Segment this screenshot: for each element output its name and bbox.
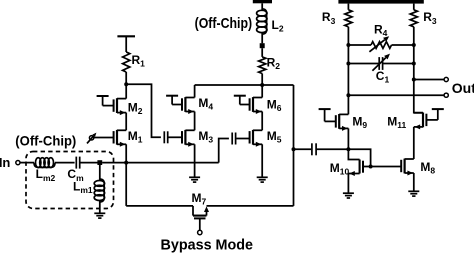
svg-text:R1: R1 xyxy=(132,53,146,69)
junction C1 left xyxy=(346,62,350,66)
bias tee M11 gate xyxy=(432,108,444,110)
capacitor coupling to M5 gate xyxy=(231,133,233,145)
bias tee M2 gate xyxy=(97,95,109,97)
node bond pad L2/R2 xyxy=(260,43,265,48)
variable capacitor C1 row xyxy=(348,63,378,65)
wire right branch xyxy=(414,27,423,113)
svg-text:M10: M10 xyxy=(330,161,350,177)
input terminal xyxy=(16,161,20,165)
wire cap to M5 gate xyxy=(236,138,249,140)
junction C1 right xyxy=(412,62,416,66)
junction Out top / right branch xyxy=(412,78,416,82)
wire C12 to M3 gate xyxy=(169,136,183,138)
wire to C23 xyxy=(294,148,312,150)
svg-text:R2: R2 xyxy=(267,55,281,71)
wire M8 source to ground xyxy=(413,173,415,191)
svg-text:M3: M3 xyxy=(198,129,213,145)
stage-2 drain line xyxy=(195,84,294,86)
bypass wire M7 to node xyxy=(207,205,294,207)
ground (below Lm1) xyxy=(94,212,105,214)
bypass wire from input junction down xyxy=(125,163,127,206)
wire M11 source to M8 drain xyxy=(413,127,415,159)
transistor M7 (bypass switch) xyxy=(192,206,194,216)
ground (M5) xyxy=(257,176,268,178)
svg-text:M6: M6 xyxy=(267,97,282,113)
wire M9 source to node N3 xyxy=(347,128,349,149)
svg-text:R3: R3 xyxy=(423,10,437,26)
junction R2/drain line xyxy=(260,83,264,87)
capacitor interstage coupling C12 xyxy=(163,131,165,143)
wire input line riser to C-M5 xyxy=(219,139,229,163)
junction R4 right xyxy=(412,43,416,47)
junction Out bottom / left branch / M9 drain xyxy=(346,93,350,97)
node input bond pad xyxy=(97,160,102,165)
wire M6 drain xyxy=(261,85,263,98)
bypass wire to M7 xyxy=(126,205,193,207)
junction bypass/stage-2 output/C23 xyxy=(292,147,296,151)
junction input/M1 source/bypass xyxy=(124,161,128,165)
transistor M6 xyxy=(252,97,254,112)
capacitor coupling C23 xyxy=(311,143,313,155)
M10 gate connection to N3 xyxy=(348,149,370,166)
gate bias arrow terminal (M1) xyxy=(89,136,93,140)
wire M1 gate xyxy=(94,137,114,139)
svg-text:R3: R3 xyxy=(322,10,336,26)
wire Cm to input node xyxy=(80,162,98,164)
resistor R3 (right) xyxy=(413,4,415,10)
resistor R1 xyxy=(123,52,130,72)
transistor M11 (mirrored) xyxy=(422,113,424,128)
wire M3 source to ground (crosses input line) xyxy=(194,144,196,177)
junction M10/M8 gate line xyxy=(369,165,373,169)
(Off-Chip) matching network dashed box xyxy=(26,152,114,209)
inductor Lm1 (shunt) xyxy=(99,165,101,181)
wire interstage stage1 output xyxy=(126,84,161,137)
transistor M4 xyxy=(184,97,186,112)
wire M1 source to input line xyxy=(125,144,127,162)
inductor Lm2 xyxy=(34,163,55,168)
node R1/M2 drain junction xyxy=(124,82,128,86)
svg-text:(Off-Chip): (Off-Chip) xyxy=(195,15,253,32)
transistor M1 xyxy=(116,130,118,145)
transistor M5 xyxy=(252,130,254,145)
wire M2 source to M1 drain xyxy=(125,113,127,131)
Out bottom terminal xyxy=(444,93,448,97)
svg-text:Out: Out xyxy=(452,80,474,96)
transistor M3 xyxy=(184,130,186,145)
wire M8 gate to mirror node xyxy=(371,166,402,168)
VDD supply bar (stage 2) xyxy=(253,0,272,3)
wire R2 to drain line xyxy=(261,74,263,86)
svg-text:L2: L2 xyxy=(272,18,284,34)
svg-text:M9: M9 xyxy=(352,115,367,131)
svg-text:C1: C1 xyxy=(376,69,390,85)
transistor M8 xyxy=(404,159,406,174)
variable resistor R4 row xyxy=(348,44,371,46)
svg-text:M8: M8 xyxy=(420,160,435,176)
ground (M3) xyxy=(189,176,200,178)
VDD supply bar (stage 3) xyxy=(338,0,423,4)
wire Out top xyxy=(414,79,444,81)
transistor M2 xyxy=(116,98,118,113)
wire left branch xyxy=(347,27,349,115)
wire M10 source to ground xyxy=(347,174,349,194)
bias tee M9 gate xyxy=(319,108,331,110)
wire Out bottom (crosses right branch) xyxy=(348,94,444,96)
ground (M8) xyxy=(408,190,419,192)
svg-text:M1: M1 xyxy=(128,129,143,145)
wire C23 to stage-3 input node xyxy=(316,148,348,150)
resistor R3 (left) xyxy=(347,4,349,10)
bias tee M4 gate xyxy=(166,95,178,97)
transistor M9 xyxy=(338,114,340,129)
bypass riser to stage-2 output xyxy=(293,85,295,206)
wire M4 drain xyxy=(194,85,196,98)
svg-text:M7: M7 xyxy=(192,191,207,207)
wire pad to R2 xyxy=(261,48,263,57)
svg-text:Lm2: Lm2 xyxy=(36,167,56,183)
wire M6 source to M5 drain xyxy=(261,112,263,131)
svg-text:M4: M4 xyxy=(198,96,213,112)
M7 gate stem and control terminal xyxy=(199,218,201,230)
resistor R2 xyxy=(259,57,266,74)
VDD supply bar (stage 1) xyxy=(117,35,135,37)
svg-text:R4: R4 xyxy=(374,22,388,38)
capacitor Cm xyxy=(75,157,77,169)
wire input line to M5-gate riser xyxy=(102,162,219,164)
Out top terminal xyxy=(444,77,448,81)
svg-text:M5: M5 xyxy=(267,129,282,145)
wire input terminal to Lm2 xyxy=(20,162,34,164)
wire R1 to M2 drain xyxy=(125,72,127,99)
svg-text:Bypass Mode: Bypass Mode xyxy=(161,236,254,253)
junction R4 left xyxy=(346,43,350,47)
bias tee M6 gate xyxy=(234,95,246,97)
transistor M10 (mirrored, diode-connected) xyxy=(348,149,359,159)
svg-text:M2: M2 xyxy=(128,100,143,116)
svg-text:(Off-Chip): (Off-Chip) xyxy=(15,133,76,149)
inductor L2 (off-chip) xyxy=(261,3,263,10)
wire Lm2 to Cm xyxy=(55,162,75,164)
svg-text:In: In xyxy=(0,155,10,170)
ground (M10) xyxy=(343,192,354,194)
wire M4 source to M3 drain xyxy=(194,112,196,131)
wire M5 source to ground xyxy=(261,144,263,177)
svg-text:M11: M11 xyxy=(387,114,406,130)
junction N3 (cap/M9/M10) xyxy=(346,147,350,151)
